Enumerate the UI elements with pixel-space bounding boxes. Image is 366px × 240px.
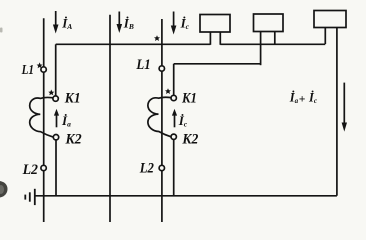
CT C: K1 terminal — [171, 95, 176, 100]
star K1 A — [48, 90, 54, 96]
CT C: secondary current arrow Ic — [172, 109, 177, 127]
sum current arrow Ia+Ic — [342, 83, 347, 132]
wire drop A — [55, 44, 57, 96]
bottom common bus — [35, 195, 337, 197]
box2 left stub — [260, 32, 262, 66]
star phase C top — [154, 35, 160, 41]
wire bus A — [56, 43, 211, 45]
CT C: K2 terminal — [171, 134, 176, 139]
svg-text:L1: L1 — [21, 62, 34, 77]
svg-text:L2: L2 — [22, 162, 38, 178]
CT A: K2 wire down — [55, 140, 57, 196]
CT C: secondary coil — [148, 97, 172, 137]
svg-text:L2: L2 — [139, 161, 154, 177]
wire bus A2 — [220, 43, 325, 45]
box3 left stub — [324, 28, 326, 45]
relay box 2 — [254, 14, 284, 32]
phase C line — [161, 19, 163, 222]
svg-text:K1: K1 — [64, 91, 81, 107]
box3 right stub / return wire — [336, 28, 338, 196]
CT A: K2 terminal — [53, 135, 58, 140]
scan smudge left edge — [0, 28, 8, 198]
relay box 1 — [200, 15, 230, 33]
svg-text:+: + — [299, 94, 306, 106]
arrow IA — [53, 11, 59, 34]
svg-text:İA: İA — [61, 16, 72, 32]
svg-text:K1: K1 — [181, 90, 197, 106]
svg-text:İc: İc — [180, 15, 190, 31]
svg-text:İa: İa — [61, 113, 71, 129]
arrow IB — [117, 12, 123, 34]
CT A: K1 terminal — [53, 96, 58, 101]
CT A: secondary coil — [30, 97, 54, 137]
svg-text:L1: L1 — [136, 57, 151, 73]
svg-text:İc: İc — [308, 91, 317, 106]
box2 right stub — [274, 32, 276, 45]
box1 left stub — [209, 32, 211, 45]
wire bus B — [174, 63, 261, 65]
CT C: L1 terminal — [159, 66, 164, 71]
ground — [25, 189, 35, 205]
svg-text:K2: K2 — [181, 131, 198, 147]
CT A: L2 terminal — [41, 165, 46, 170]
svg-text:K2: K2 — [65, 131, 82, 147]
svg-text:İc: İc — [178, 113, 188, 129]
star L1 A — [37, 62, 43, 68]
CT A: L1 terminal — [41, 67, 46, 72]
svg-text:İB: İB — [123, 16, 134, 32]
wire drop C — [173, 64, 175, 96]
svg-text:İa: İa — [289, 91, 299, 106]
box1 right stub — [219, 32, 221, 45]
CT C: L2 terminal — [159, 165, 164, 170]
CT A: secondary current arrow Ia — [54, 109, 59, 127]
CT C: K2 wire down — [173, 140, 175, 196]
star K1 C — [165, 88, 171, 94]
arrow IC — [171, 12, 177, 35]
phase A line — [43, 18, 45, 222]
relay box 3 — [314, 11, 346, 28]
phase B line — [109, 15, 111, 222]
